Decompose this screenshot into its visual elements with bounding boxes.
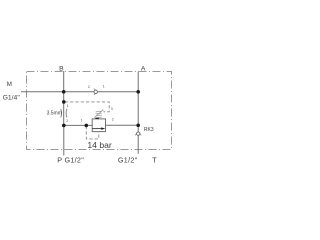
svg-text:A: A: [141, 65, 146, 72]
svg-text:2: 2: [66, 119, 68, 123]
svg-text:M: M: [7, 81, 12, 88]
svg-text:1: 1: [103, 85, 105, 89]
svg-text:B: B: [59, 66, 64, 73]
svg-text:RK3: RK3: [144, 127, 154, 133]
svg-text:3: 3: [111, 107, 113, 111]
svg-text:1: 1: [81, 118, 83, 122]
svg-text:P G1/2": P G1/2": [57, 156, 84, 165]
svg-text:T: T: [152, 156, 157, 165]
svg-text:2: 2: [88, 85, 90, 89]
svg-text:3.5mm: 3.5mm: [47, 111, 62, 117]
svg-text:2: 2: [112, 117, 114, 121]
svg-text:14 bar: 14 bar: [87, 140, 112, 150]
svg-text:G1/4": G1/4": [3, 94, 21, 101]
svg-text:G1/2": G1/2": [118, 156, 138, 165]
svg-text:1: 1: [67, 104, 69, 108]
